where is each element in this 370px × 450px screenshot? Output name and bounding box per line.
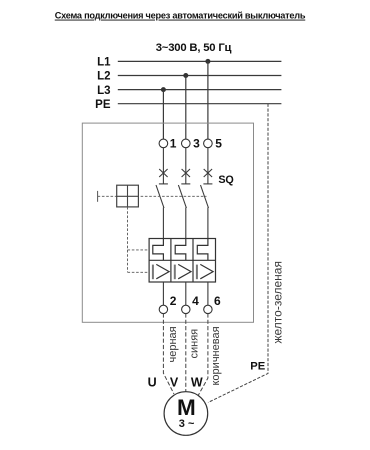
wire U (black) dashed to motor [163, 313, 174, 394]
svg-text:6: 6 [214, 294, 221, 308]
switch blade pole 3 [201, 185, 209, 208]
terminal 2 [159, 305, 167, 313]
wire block to terminal 2 [162, 282, 164, 305]
svg-text:M: M [177, 395, 196, 420]
svg-text:синяя: синяя [189, 329, 201, 359]
bus L1 [118, 60, 282, 62]
magnetic release pole 2 [175, 264, 191, 279]
linkage dashed horizontal [98, 195, 207, 197]
svg-text:V: V [170, 376, 179, 390]
wire terminal 3 to contact [185, 148, 187, 184]
svg-text:SQ: SQ [218, 174, 233, 186]
bus L3 [118, 89, 282, 91]
svg-text:W: W [191, 376, 203, 390]
contact cross pole 3 [204, 169, 212, 177]
thermal release pole 3 [197, 239, 208, 261]
terminal 1 [159, 139, 168, 148]
svg-text:черная: черная [167, 326, 179, 362]
svg-text:коричневая: коричневая [210, 326, 222, 385]
svg-text:3: 3 [193, 137, 200, 151]
terminal 5 [204, 139, 213, 148]
thermal release pole 1 [153, 239, 164, 261]
mechanism square [117, 185, 139, 207]
bus PE [118, 103, 282, 105]
svg-text:желто-зеленая: желто-зеленая [270, 261, 284, 343]
breaker enclosure box [82, 123, 253, 322]
motor M circle [164, 392, 208, 436]
svg-text:U: U [148, 376, 157, 390]
magnetic release pole 1 [153, 264, 169, 279]
terminal 4 [182, 305, 190, 313]
svg-text:3~300 В, 50 Гц: 3~300 В, 50 Гц [156, 42, 232, 54]
svg-text:4: 4 [192, 294, 199, 308]
wire W (brown) dashed to motor [198, 313, 208, 395]
fixed contact tick pole 2 [181, 183, 190, 185]
wire blade to block pole 3 [207, 208, 209, 246]
svg-text:L1: L1 [97, 57, 111, 69]
PE dashed wire to motor [208, 104, 268, 403]
svg-text:5: 5 [215, 137, 222, 151]
wire terminal 5 to contact [207, 148, 209, 184]
svg-text:Схема подключения через автома: Схема подключения через автоматический в… [55, 11, 306, 21]
junction dot on L3 [161, 87, 166, 92]
svg-text:1: 1 [170, 137, 177, 151]
wire block to terminal 4 [185, 282, 187, 305]
magnetic release pole 3 [197, 264, 213, 279]
wire L3 to terminal 1 [162, 90, 164, 140]
wire V (blue) dashed to motor [185, 313, 187, 392]
svg-text:2: 2 [170, 294, 177, 308]
wire block to terminal 6 [207, 282, 209, 305]
wire terminal 1 to contact [162, 148, 164, 184]
terminal 6 [204, 305, 212, 313]
linkage stub to magnetic row [128, 271, 150, 273]
release block [149, 239, 215, 283]
wire blade to block pole 1 [162, 208, 164, 246]
junction dot on L1 [205, 59, 210, 64]
wire L2 to terminal 3 [185, 76, 187, 140]
thermal release pole 2 [175, 239, 186, 261]
contact cross pole 2 [182, 169, 190, 177]
svg-text:3 ~: 3 ~ [179, 418, 195, 430]
bus L2 [118, 75, 282, 77]
wire blade to block pole 2 [185, 208, 187, 246]
terminal 3 [182, 139, 191, 148]
contact cross pole 1 [159, 169, 167, 177]
linkage dashed vertical [127, 207, 129, 272]
fixed contact tick pole 3 [203, 183, 212, 185]
fixed contact tick pole 1 [159, 183, 168, 185]
svg-text:L3: L3 [97, 85, 110, 97]
svg-text:PE: PE [95, 99, 111, 111]
svg-text:L2: L2 [97, 71, 110, 83]
switch blade pole 2 [178, 185, 186, 208]
linkage stub to thermal row [128, 249, 150, 251]
wire L1 to terminal 5 [207, 61, 209, 139]
linkage left end tick [97, 191, 99, 202]
svg-text:PE: PE [250, 361, 265, 373]
junction dot on L2 [183, 73, 188, 78]
switch blade pole 1 [156, 185, 164, 208]
